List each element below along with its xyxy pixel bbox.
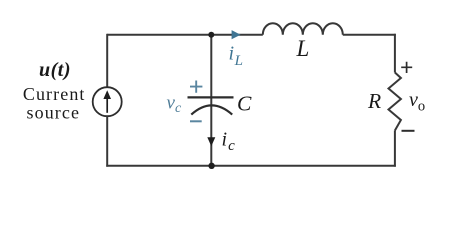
node top junction dot: [208, 32, 214, 38]
svg-text:iL: iL: [229, 43, 243, 70]
svg-text:L: L: [296, 36, 310, 61]
current source U1 circle: [93, 87, 122, 116]
svg-text:source: source: [27, 103, 81, 123]
svg-text:vc: vc: [167, 93, 182, 117]
svg-text:R: R: [367, 89, 381, 113]
wire right side lower: [394, 131, 396, 167]
capacitor C top plate: [188, 96, 234, 98]
wire bottom side: [106, 165, 396, 167]
current source arrow shaft: [106, 98, 108, 113]
current arrow ic arrowhead: [207, 137, 215, 146]
wire top-left segment: [107, 34, 263, 36]
node bottom junction dot: [208, 163, 214, 169]
capacitor C curved plate: [191, 105, 232, 114]
inductor L: [263, 23, 343, 35]
wire capacitor branch: [210, 35, 212, 166]
capacitor plus sign (blue): [190, 81, 202, 93]
capacitor minus sign (blue): [190, 120, 202, 122]
svg-text:C: C: [237, 92, 252, 116]
resistor minus sign: [402, 130, 415, 132]
wire left side upper: [106, 34, 108, 88]
svg-text:vo: vo: [409, 89, 425, 115]
svg-text:Current: Current: [23, 84, 86, 104]
wire top-right segment: [343, 34, 396, 36]
wire left side lower: [106, 116, 108, 167]
current arrow iL (blue): [232, 30, 241, 39]
resistor R zigzag: [389, 73, 401, 131]
resistor plus sign: [401, 62, 412, 73]
wire right side upper: [394, 34, 396, 73]
svg-text:u(t): u(t): [39, 59, 71, 81]
svg-text:ic: ic: [222, 129, 236, 155]
current source arrowhead: [103, 90, 111, 99]
